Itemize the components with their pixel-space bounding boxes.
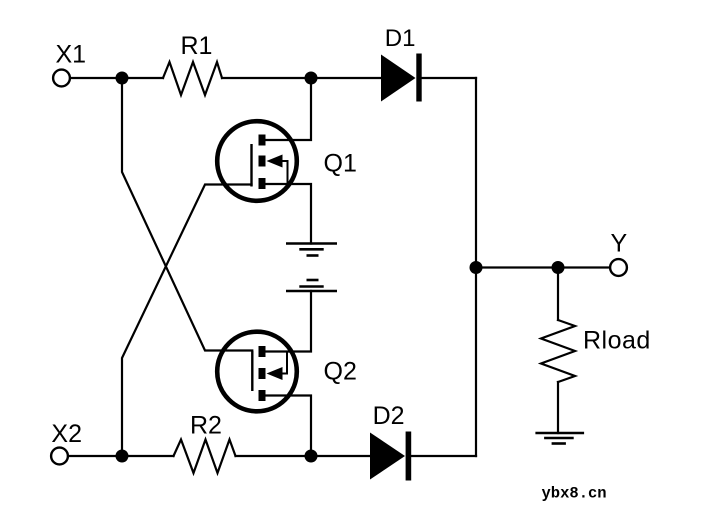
svg-text:ybx8.cn: ybx8.cn bbox=[542, 484, 607, 502]
svg-text:Rload: Rload bbox=[583, 327, 651, 355]
svg-text:R1: R1 bbox=[181, 32, 213, 60]
svg-text:Q1: Q1 bbox=[324, 149, 357, 177]
svg-text:X1: X1 bbox=[56, 41, 87, 69]
svg-text:D1: D1 bbox=[385, 25, 416, 52]
svg-text:X2: X2 bbox=[51, 420, 82, 448]
svg-text:D2: D2 bbox=[373, 402, 405, 430]
svg-text:R2: R2 bbox=[190, 412, 222, 440]
svg-text:Q2: Q2 bbox=[324, 357, 357, 385]
svg-text:Y: Y bbox=[611, 230, 628, 258]
